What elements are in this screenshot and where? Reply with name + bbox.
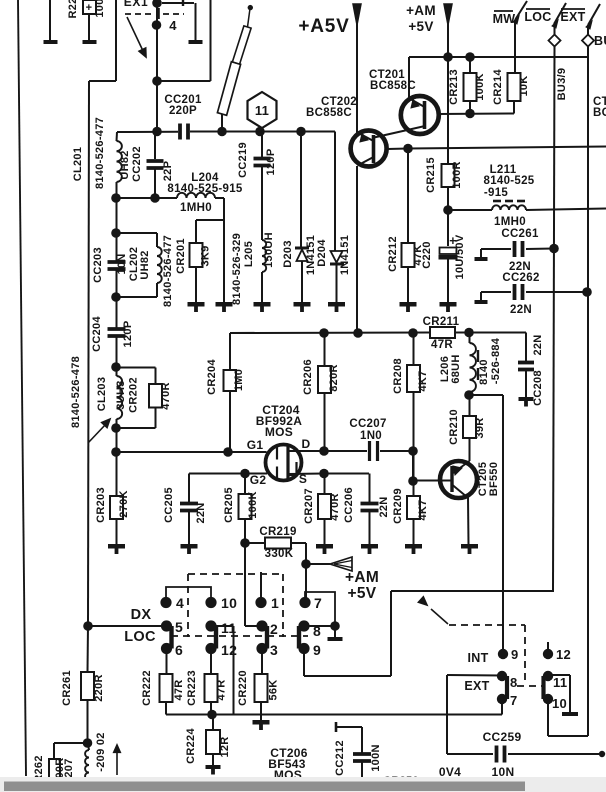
svg-text:MOS: MOS [265,425,293,439]
svg-text:CR209: CR209 [392,488,404,524]
svg-text:CC207: CC207 [349,418,386,430]
svg-text:CR215: CR215 [425,157,437,193]
svg-text:CR222: CR222 [141,670,153,706]
svg-text:220R: 220R [93,674,105,702]
svg-text:D: D [302,437,311,451]
svg-text:0V4: 0V4 [439,765,461,779]
svg-text:+AM: +AM [345,569,379,586]
svg-text:UH82: UH82 [119,150,131,179]
svg-text:120P: 120P [265,149,277,176]
svg-text:1M0: 1M0 [233,369,245,391]
svg-text:10U/50V: 10U/50V [454,234,466,279]
svg-text:CR261: CR261 [61,670,73,706]
svg-text:CC208: CC208 [532,370,544,406]
svg-text:CC204: CC204 [91,316,103,352]
svg-text:CR202: CR202 [128,377,140,413]
svg-text:330K: 330K [265,548,294,560]
svg-text:8140-526-329: 8140-526-329 [231,233,243,305]
svg-text:22N: 22N [378,496,390,517]
svg-text:L205: L205 [243,241,255,267]
svg-text:+: + [86,2,93,14]
svg-text:8140-526-477: 8140-526-477 [94,117,106,189]
svg-text:100K: 100K [474,73,486,101]
svg-text:120P: 120P [122,321,134,348]
svg-text:CR207: CR207 [303,488,315,524]
svg-text:47R: 47R [431,339,453,351]
svg-text:CR211: CR211 [423,316,460,328]
svg-text:47R: 47R [216,679,228,700]
svg-text:EX1: EX1 [124,0,148,9]
svg-text:CR205: CR205 [223,487,235,523]
svg-text:820R: 820R [328,364,340,392]
svg-text:470R: 470R [329,493,341,521]
svg-text:CR210: CR210 [448,409,460,445]
svg-text:9: 9 [511,647,519,662]
svg-text:8140-525: 8140-525 [484,175,535,187]
svg-text:56K: 56K [268,679,280,700]
svg-text:1MH0: 1MH0 [494,216,526,228]
svg-text:INT: INT [467,651,488,665]
svg-text:CR224: CR224 [185,728,197,764]
svg-text:+5V: +5V [408,19,433,34]
svg-text:CC212: CC212 [334,740,346,776]
svg-text:22P: 22P [162,161,174,181]
svg-text:CC261: CC261 [501,228,539,240]
svg-text:8140-526-477: 8140-526-477 [162,235,174,307]
svg-text:D204: D204 [316,239,328,267]
svg-text:+A5V: +A5V [298,16,349,37]
svg-text:8140: 8140 [478,359,490,385]
svg-text:47K: 47K [412,244,424,265]
svg-text:CR219: CR219 [259,526,296,538]
svg-text:10: 10 [552,696,567,711]
svg-text:CC259: CC259 [483,730,522,744]
svg-text:100: 100 [94,0,106,18]
svg-text:CR201: CR201 [175,238,187,274]
svg-text:UH82: UH82 [139,250,151,279]
svg-text:100K: 100K [247,491,259,519]
svg-text:CC262: CC262 [502,272,539,284]
svg-text:11: 11 [553,675,567,690]
svg-text:220P: 220P [169,105,197,117]
svg-text:BC858C: BC858C [306,107,352,119]
svg-text:BC8: BC8 [593,107,606,119]
svg-text:68UH: 68UH [450,354,462,383]
svg-text:CR214: CR214 [492,69,504,105]
svg-text:EXT: EXT [560,10,585,24]
svg-text:10N: 10N [116,253,128,274]
svg-text:4: 4 [176,595,184,611]
svg-text:10K: 10K [518,75,530,96]
svg-text:LOC: LOC [124,629,156,645]
svg-text:CC219: CC219 [237,142,249,178]
svg-text:270K: 270K [118,490,130,518]
svg-text:EXT: EXT [464,679,489,693]
svg-text:47R: 47R [173,679,185,700]
svg-text:CC206: CC206 [343,487,355,523]
svg-text:1MH0: 1MH0 [180,202,212,214]
svg-text:3K9: 3K9 [200,245,212,266]
svg-text:CR203: CR203 [95,487,107,523]
svg-text:8140-526-478: 8140-526-478 [70,356,82,428]
svg-text:6: 6 [175,642,183,658]
svg-text:22N: 22N [510,304,532,316]
svg-text:-915: -915 [484,187,509,199]
svg-text:CR208: CR208 [392,358,404,394]
svg-text:8: 8 [510,675,518,690]
svg-text:12: 12 [556,647,571,662]
svg-text:D203: D203 [282,240,294,268]
svg-text:22N: 22N [532,334,544,355]
svg-text:39R: 39R [474,417,486,438]
svg-text:CR206: CR206 [302,359,314,395]
svg-text:BF550: BF550 [488,462,500,497]
svg-text:CC202: CC202 [131,146,143,182]
svg-text:MW: MW [493,12,516,26]
svg-text:-526-884: -526-884 [490,337,502,384]
svg-text:CR220: CR220 [237,670,249,706]
svg-text:3UH3: 3UH3 [115,380,127,409]
svg-text:207: 207 [63,758,75,777]
svg-text:G2: G2 [250,473,267,487]
svg-text:1N0: 1N0 [360,430,382,442]
svg-text:CR204: CR204 [206,359,218,395]
svg-text:DX: DX [131,607,152,623]
svg-text:CL201: CL201 [72,147,84,182]
svg-text:CL203: CL203 [96,377,108,412]
svg-text:8140-525-915: 8140-525-915 [167,183,243,195]
svg-text:12R: 12R [219,736,231,757]
svg-text:100R: 100R [451,161,463,189]
svg-text:+5V: +5V [348,585,377,602]
svg-text:CR213: CR213 [448,69,460,105]
svg-text:LOC: LOC [524,10,551,24]
svg-text:9: 9 [313,642,321,658]
svg-text:5: 5 [175,619,183,635]
svg-text:2: 2 [270,621,278,637]
svg-text:4K7: 4K7 [417,370,429,391]
svg-text:1N4151: 1N4151 [339,235,351,275]
svg-text:G1: G1 [247,438,264,452]
svg-text:+AM: +AM [406,3,436,18]
svg-text:11: 11 [255,103,269,118]
svg-text:12: 12 [221,642,237,658]
svg-text:100N: 100N [370,744,382,772]
svg-text:CC203: CC203 [92,247,104,283]
svg-text:4K7: 4K7 [417,499,429,520]
svg-text:150UH: 150UH [263,232,275,268]
svg-text:10N: 10N [492,765,515,779]
svg-text:22N: 22N [195,502,207,523]
svg-text:-209 02: -209 02 [95,732,107,771]
svg-text:7: 7 [510,693,518,708]
svg-text:10: 10 [221,595,237,611]
svg-text:CC205: CC205 [163,487,175,523]
svg-text:4: 4 [169,18,177,33]
svg-text:CR223: CR223 [186,670,198,706]
svg-text:7: 7 [314,595,322,611]
svg-text:BU: BU [594,34,606,48]
svg-text:470R: 470R [160,382,172,410]
svg-text:3: 3 [270,642,278,658]
svg-text:1: 1 [271,595,279,611]
svg-text:BU3/9: BU3/9 [556,68,568,101]
svg-text:CR212: CR212 [387,236,399,272]
svg-text:R22: R22 [67,0,79,19]
